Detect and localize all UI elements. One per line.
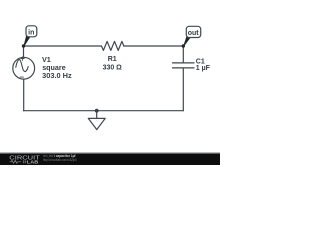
watermark logo squiggle xyxy=(10,160,27,163)
wire bottom rail xyxy=(24,110,184,112)
svg-text:LAB: LAB xyxy=(27,160,39,165)
svg-text:1 µF: 1 µF xyxy=(196,65,211,72)
node dot at in xyxy=(22,44,25,47)
V1 sine squiggle xyxy=(16,60,28,72)
label in box xyxy=(24,26,37,47)
watermark bar xyxy=(0,154,220,166)
ground triangle xyxy=(88,118,105,129)
watermark bar top soft edge xyxy=(0,152,220,153)
resistor R1 xyxy=(102,41,124,50)
wire top right: resistor to node out xyxy=(124,45,184,47)
node dot at ground junction xyxy=(95,109,99,113)
C1 value labels xyxy=(196,58,211,72)
svg-text:http://circuitlab.com/c/52lp5: http://circuitlab.com/c/52lp5 xyxy=(43,158,77,162)
node dot at out xyxy=(182,44,185,47)
wire: capacitor bottom down to bottom rail xyxy=(182,68,184,110)
wire: V1 bottom down to bottom rail xyxy=(23,79,25,111)
svg-text:in: in xyxy=(28,30,34,37)
voltage source V1 circle xyxy=(13,57,35,79)
svg-text:R1: R1 xyxy=(108,56,117,63)
capacitor C1 bottom plate xyxy=(173,67,195,69)
svg-text:330 Ω: 330 Ω xyxy=(103,64,123,71)
label out box xyxy=(184,26,201,46)
wire: node out down to capacitor xyxy=(182,46,184,62)
ground stub wire xyxy=(96,111,98,119)
V1 plus sign xyxy=(21,57,24,61)
wire: node in down to V1 top xyxy=(23,46,25,57)
V1 minus sign xyxy=(20,76,23,78)
wire top left: node in to resistor xyxy=(24,45,102,47)
V1 value labels xyxy=(42,55,72,80)
svg-text:303.0 Hz: 303.0 Hz xyxy=(42,71,72,80)
capacitor C1 top plate xyxy=(173,62,195,64)
R1 value labels xyxy=(103,56,123,71)
svg-text:out: out xyxy=(188,30,200,37)
